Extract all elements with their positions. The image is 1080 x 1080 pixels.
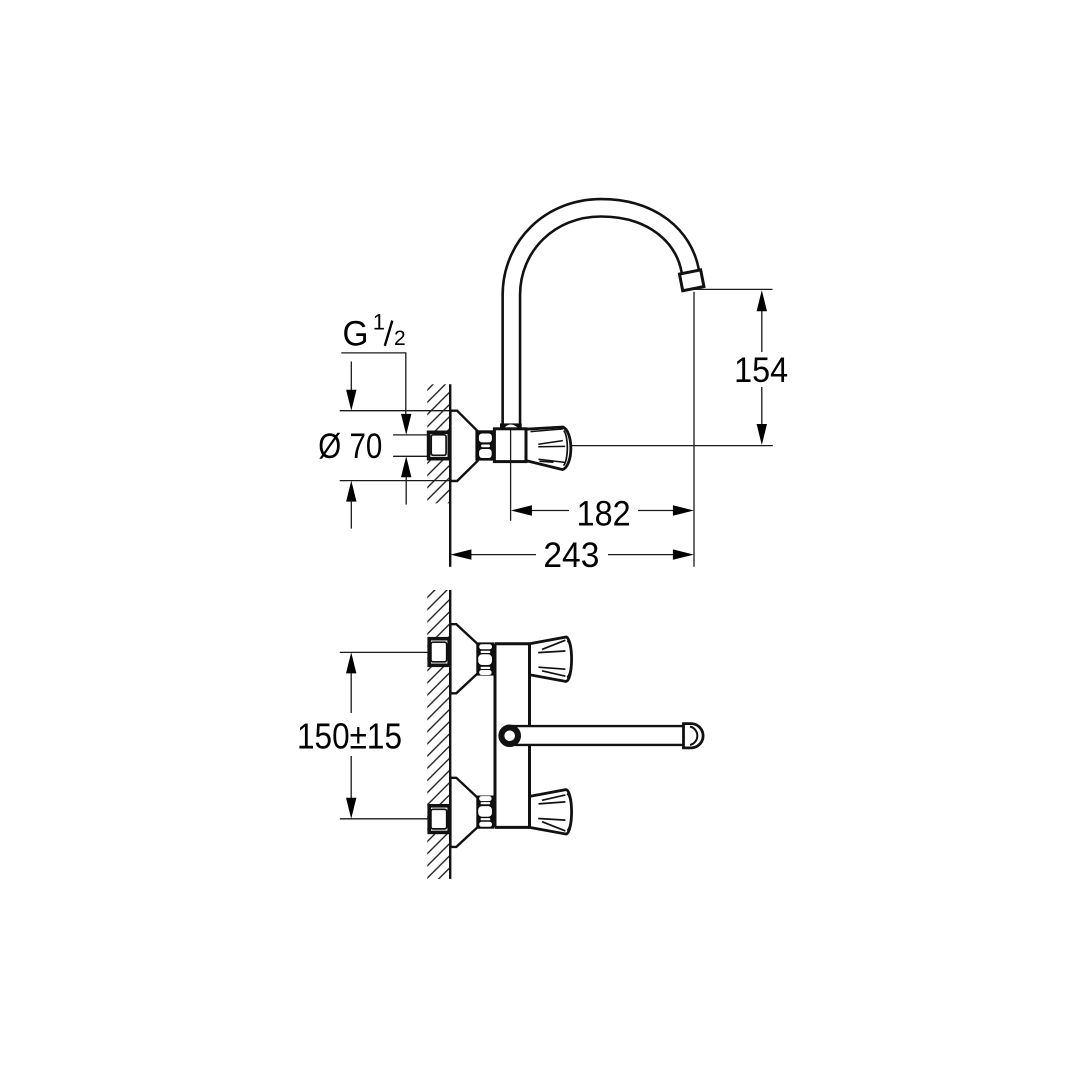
wall line bottom view bbox=[449, 590, 451, 879]
svg-text:2: 2 bbox=[394, 327, 406, 350]
spout pipe bottom view bbox=[512, 726, 684, 745]
dim 182 arrows bbox=[511, 505, 532, 515]
lower knob bottom view bbox=[530, 790, 572, 835]
dim 150 extension lines bbox=[340, 652, 429, 818]
dia70 extension lines bbox=[340, 411, 450, 481]
wall line top view bbox=[449, 384, 451, 567]
aerator tip bbox=[679, 270, 703, 291]
dim 150 arrows bbox=[346, 652, 356, 673]
spout gooseneck pipe (black stroke) bbox=[511, 208, 690, 424]
body bar bottom view bbox=[495, 644, 530, 828]
dia70 lower arrow + tail bbox=[346, 481, 356, 502]
svg-text:182: 182 bbox=[577, 494, 631, 533]
lower escutcheon bottom view bbox=[450, 778, 477, 847]
dim 154 line segments bbox=[761, 309, 763, 426]
G1/2 lower arrow bbox=[401, 456, 411, 477]
wall hatching top view bbox=[427, 384, 450, 503]
dim 243 arrows bbox=[450, 549, 471, 559]
svg-text:154: 154 bbox=[734, 351, 788, 390]
handle shading lines bbox=[531, 429, 566, 463]
svg-text:1: 1 bbox=[373, 310, 385, 335]
centerline right of handle bbox=[572, 445, 773, 447]
dim 154 arrows bbox=[757, 290, 767, 311]
dim 243 line segments bbox=[470, 554, 674, 556]
lower square connector bottom view bbox=[429, 806, 449, 833]
G1/2 upper arrow bbox=[401, 414, 411, 435]
lower hex nut bottom view bbox=[477, 796, 495, 829]
long vertical extension from spout tip bbox=[693, 292, 695, 567]
handle knob top view bbox=[526, 427, 571, 470]
hex nut top view bbox=[475, 430, 495, 460]
dim 182 line segments bbox=[531, 510, 674, 512]
G1/2 extension lines bbox=[393, 435, 428, 456]
flange at spout base bbox=[500, 423, 522, 429]
valve body top view bbox=[494, 429, 526, 462]
wall hatching bottom view bbox=[427, 590, 450, 879]
upper square connector bottom view bbox=[429, 639, 449, 666]
G1/2 leader line bbox=[341, 353, 406, 416]
extension line from valve center bbox=[510, 430, 512, 521]
upper hex nut bottom view bbox=[477, 642, 495, 675]
upper escutcheon bottom view bbox=[450, 624, 477, 693]
dim 154 top extension line bbox=[690, 288, 772, 290]
182 extension through body bbox=[510, 430, 512, 462]
handle cap inner arc bbox=[564, 431, 568, 466]
dia70 upper arrow + tail bbox=[350, 362, 352, 392]
spout base circle bottom view bbox=[501, 727, 518, 744]
square connector top view bbox=[429, 432, 450, 458]
escutcheon top view bbox=[450, 411, 477, 481]
dim 150 line segments bbox=[350, 672, 352, 799]
spout gooseneck pipe (white core) bbox=[511, 208, 690, 424]
svg-text:243: 243 bbox=[543, 536, 599, 575]
G1/2 lower arrow tail bbox=[405, 476, 407, 505]
svg-text:150±15: 150±15 bbox=[297, 715, 402, 756]
svg-text:G: G bbox=[343, 314, 369, 353]
upper knob bottom view bbox=[530, 637, 572, 682]
spout tip cap bottom view bbox=[684, 724, 704, 748]
svg-text:Ø 70: Ø 70 bbox=[318, 427, 382, 466]
